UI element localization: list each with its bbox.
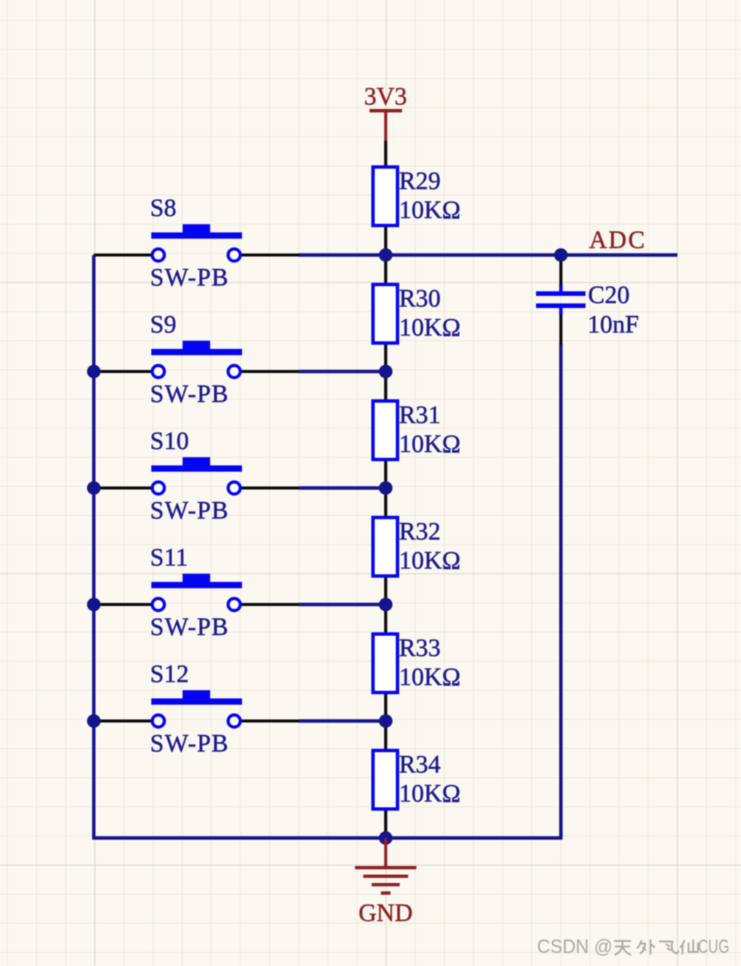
svg-text:S9: S9 bbox=[150, 312, 176, 339]
resistor R30 10KΩ bbox=[373, 285, 461, 344]
wire ADC node to C20 bbox=[559, 255, 562, 286]
svg-text:R34: R34 bbox=[399, 752, 441, 779]
svg-text:10KΩ: 10KΩ bbox=[399, 664, 461, 691]
resistor R34 10KΩ bbox=[373, 751, 461, 810]
capacitor C20 10nF bbox=[536, 282, 639, 339]
svg-text:S10: S10 bbox=[150, 428, 189, 455]
svg-text:S11: S11 bbox=[150, 545, 188, 572]
wire bottom bus horizontal bbox=[92, 836, 562, 839]
wire C20 to right bus bbox=[559, 313, 562, 345]
svg-text:ADC: ADC bbox=[589, 227, 646, 254]
wire S12 to resistor chain bbox=[299, 719, 386, 722]
resistor R29 10KΩ bbox=[373, 167, 461, 226]
svg-text:R29: R29 bbox=[399, 168, 441, 195]
svg-text:10nF: 10nF bbox=[588, 312, 639, 339]
wire S9 pin 2 to bus bbox=[241, 370, 300, 373]
wire S12 pin 2 to bus bbox=[241, 719, 300, 722]
junction left bus S11 level bbox=[87, 598, 101, 612]
wire S11 to resistor chain bbox=[299, 603, 386, 606]
svg-text:S12: S12 bbox=[150, 661, 189, 688]
wire S10 pin 2 to bus bbox=[241, 486, 300, 489]
switch S10 SW-PB push button bbox=[150, 428, 242, 525]
junction left bus S12 level bbox=[87, 714, 101, 728]
wire chain 3V3 to R29 bbox=[384, 141, 387, 168]
svg-text:SW-PB: SW-PB bbox=[150, 265, 229, 292]
wire chain R32 to R33 bbox=[384, 576, 387, 635]
svg-text:10KΩ: 10KΩ bbox=[399, 197, 461, 224]
resistor R32 10KΩ bbox=[373, 518, 461, 577]
wire right bus vertical (C20 to bottom) bbox=[559, 344, 562, 839]
svg-text:10KΩ: 10KΩ bbox=[399, 431, 461, 458]
wire net ADC horizontal bbox=[299, 253, 677, 256]
wire S10 to resistor chain bbox=[299, 486, 386, 489]
junction chain node S9 level bbox=[379, 365, 393, 379]
junction chain node S11 level bbox=[379, 598, 393, 612]
switch S9 SW-PB push button bbox=[150, 312, 242, 409]
svg-text:SW-PB: SW-PB bbox=[150, 614, 229, 641]
svg-text:CUG: CUG bbox=[698, 937, 729, 958]
power port 3V3 bbox=[364, 84, 407, 142]
junction bottom node bbox=[379, 831, 393, 845]
junction left bus S10 level bbox=[87, 481, 101, 495]
wire rail to S10 pin 1 bbox=[94, 486, 152, 489]
svg-text:10KΩ: 10KΩ bbox=[399, 781, 461, 808]
wire S11 pin 2 to bus bbox=[241, 603, 300, 606]
svg-text:SW-PB: SW-PB bbox=[150, 731, 229, 758]
svg-text:SW-PB: SW-PB bbox=[150, 498, 229, 525]
svg-text:S8: S8 bbox=[150, 195, 176, 222]
wire left bus vertical (S8 to bottom) bbox=[92, 255, 95, 838]
svg-text:SW-PB: SW-PB bbox=[150, 381, 229, 408]
wire S9 to resistor chain bbox=[299, 370, 386, 373]
wire S8 pin 2 to bus bbox=[241, 253, 300, 256]
resistor R33 10KΩ bbox=[373, 634, 461, 693]
junction left bus S9 level bbox=[87, 365, 101, 379]
junction ADC node at C20 bbox=[554, 248, 568, 262]
svg-text:C20: C20 bbox=[588, 282, 630, 309]
wire rail to S12 pin 1 bbox=[94, 719, 152, 722]
wire chain R29 to R30 bbox=[384, 225, 387, 285]
junction chain node S10 level bbox=[379, 481, 393, 495]
svg-text:R32: R32 bbox=[399, 519, 441, 546]
ground GND power port bbox=[355, 838, 416, 927]
watermark CSDN bbox=[537, 937, 729, 958]
svg-text:GND: GND bbox=[359, 900, 413, 927]
switch S11 SW-PB push button bbox=[150, 545, 242, 642]
wire rail to S11 pin 1 bbox=[94, 603, 152, 606]
junction chain node S8 level bbox=[379, 248, 393, 262]
svg-text:10KΩ: 10KΩ bbox=[399, 315, 461, 342]
switch S8 SW-PB push button bbox=[150, 195, 242, 292]
svg-text:10KΩ: 10KΩ bbox=[399, 548, 461, 575]
resistor R31 10KΩ bbox=[373, 401, 461, 460]
wire chain R33 to R34 bbox=[384, 692, 387, 751]
wire chain R31 to R32 bbox=[384, 459, 387, 518]
junction chain node S12 level bbox=[379, 714, 393, 728]
svg-text:CSDN @: CSDN @ bbox=[537, 937, 613, 958]
switch S12 SW-PB push button bbox=[150, 661, 242, 758]
svg-text:R33: R33 bbox=[399, 635, 441, 662]
svg-text:3V3: 3V3 bbox=[364, 84, 407, 111]
svg-text:R31: R31 bbox=[399, 402, 441, 429]
wire chain R30 to R31 bbox=[384, 343, 387, 402]
wire rail to S9 pin 1 bbox=[94, 370, 152, 373]
wire chain R34 to bottom bbox=[384, 809, 387, 839]
wire rail to S8 pin 1 bbox=[94, 253, 152, 256]
svg-text:R30: R30 bbox=[399, 286, 441, 313]
